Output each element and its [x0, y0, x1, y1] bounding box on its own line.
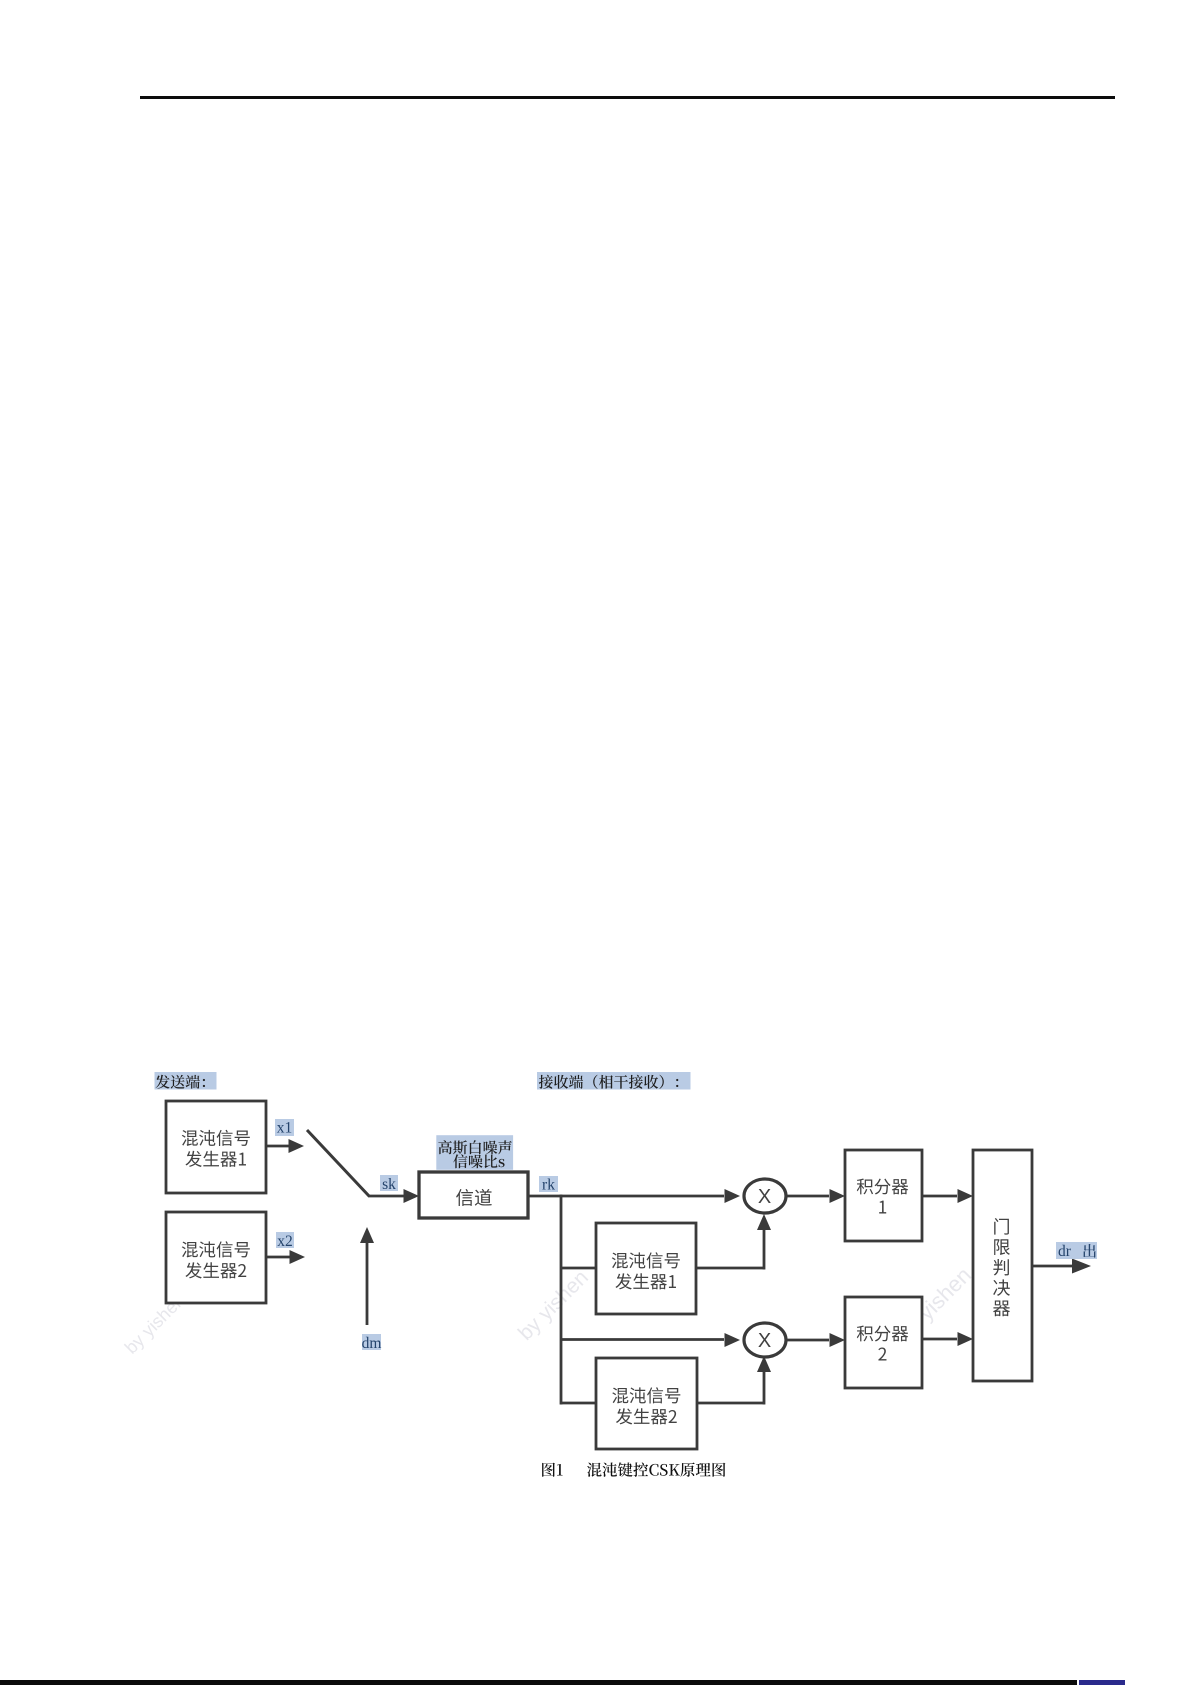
arrow dm (data input to switch)	[360, 1227, 374, 1325]
node label sk	[380, 1175, 398, 1193]
block: chaotic signal generator 2 (receiver)	[596, 1358, 697, 1449]
block: 积分器2 (integrator 2)	[845, 1297, 922, 1388]
node label dm	[362, 1334, 382, 1352]
wire+arrow multiplier2 to integrator2	[786, 1333, 845, 1347]
svg-text:dm: dm	[362, 1335, 382, 1352]
wire+arrow sk into channel	[368, 1189, 419, 1203]
wire+arrow multiplier1 to integrator1	[786, 1189, 845, 1203]
svg-text:X: X	[758, 1186, 771, 1208]
wire trunk vertical from rk junction	[560, 1195, 563, 1405]
wire branch to receiver generator 1	[561, 1267, 596, 1270]
svg-text:X: X	[758, 1330, 771, 1352]
svg-text:x2: x2	[277, 1233, 293, 1250]
node label x2	[276, 1232, 294, 1250]
wire+arrow x2 out of generator 2	[266, 1250, 305, 1264]
label 高斯白噪声 / 信噪比s (AWGN, SNR s)	[436, 1135, 513, 1170]
label 接收端（相干接收）： (receiver side)	[537, 1072, 691, 1090]
node label dr 出 (output)	[1056, 1242, 1097, 1260]
block: chaotic signal generator 1 (sender)	[166, 1101, 266, 1193]
wire+arrow integrator1 to threshold decider	[922, 1189, 973, 1203]
label 发送端： (transmitter side)	[155, 1072, 217, 1090]
block: 信道 (channel)	[419, 1172, 528, 1218]
wire branch to multiplier 2	[561, 1333, 740, 1347]
wire+arrow integrator2 to threshold decider	[922, 1332, 973, 1346]
wire+arrow x1 out of generator 1	[266, 1139, 304, 1153]
svg-text:dr: dr	[1058, 1243, 1072, 1260]
wire generator2 output up into multiplier 2	[697, 1356, 771, 1405]
multiplier 1 (X)	[744, 1179, 786, 1213]
wire+arrow dr output	[1032, 1259, 1091, 1274]
bottom blue bar segment	[1079, 1680, 1125, 1685]
wire generator1 output up into multiplier 1	[696, 1214, 771, 1270]
block: chaotic signal generator 2 (sender)	[166, 1212, 266, 1303]
svg-text:x1: x1	[277, 1120, 293, 1137]
caption 图1 混沌键控CSK原理图	[542, 1462, 725, 1476]
svg-text:by yishen: by yishen	[514, 1266, 593, 1345]
top horizontal rule	[140, 96, 1115, 99]
wire rk from channel to multiplier 1	[528, 1189, 740, 1203]
block: 门限判决器 (threshold decider)	[973, 1150, 1032, 1381]
svg-text:sk: sk	[382, 1176, 396, 1193]
wire branch to receiver generator 2	[561, 1402, 596, 1405]
block: 积分器1 (integrator 1)	[845, 1150, 922, 1241]
block: chaotic signal generator 1 (receiver)	[596, 1223, 696, 1314]
bottom black bar	[0, 1680, 1077, 1685]
switch arm (selects x1/x2)	[307, 1130, 369, 1196]
node label x1	[275, 1119, 294, 1137]
node label rk	[539, 1176, 558, 1194]
svg-text:rk: rk	[542, 1177, 555, 1194]
multiplier 2 (X)	[744, 1323, 786, 1357]
